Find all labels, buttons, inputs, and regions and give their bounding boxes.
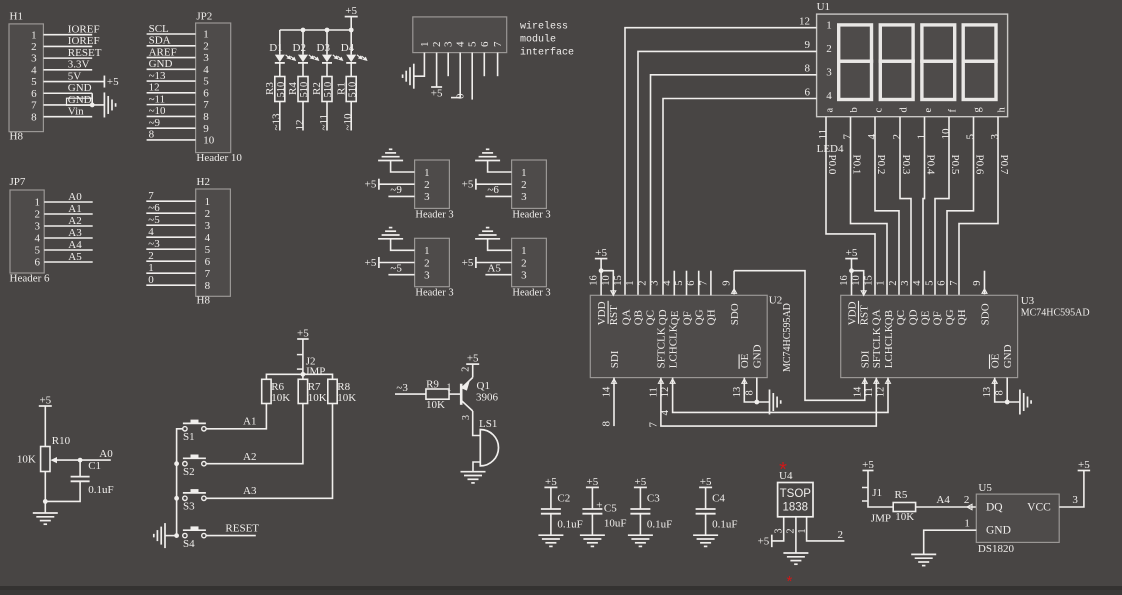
wire U1 segment g (pin 5, net P0.6) to U3 QG bbox=[947, 117, 985, 296]
svg-text:QD: QD bbox=[907, 309, 919, 325]
svg-text:R2: R2 bbox=[311, 82, 323, 95]
svg-text:3: 3 bbox=[205, 220, 211, 232]
wire H1 GND pin6 to pin7 junction bbox=[90, 93, 95, 107]
svg-text:12: 12 bbox=[876, 387, 887, 398]
connector JP2 (Header 10) bbox=[196, 11, 243, 165]
capacitor C4 0.1uF bbox=[696, 493, 738, 536]
svg-text:QG: QG bbox=[944, 309, 956, 325]
resistor R6 10K bbox=[262, 379, 291, 404]
wire U5 GND (pin 1) to ground bbox=[924, 517, 977, 554]
svg-text:9: 9 bbox=[722, 280, 733, 285]
svg-text:~9: ~9 bbox=[149, 117, 161, 129]
wire U1 segment d (pin 2, net P0.3) to U3 QD bbox=[891, 117, 912, 296]
svg-text:GND: GND bbox=[68, 82, 92, 94]
wire H1 pin 2 net IOREF bbox=[43, 35, 99, 47]
wire net 8 to U2 SDI bbox=[601, 378, 615, 427]
svg-text:2: 2 bbox=[786, 529, 797, 534]
svg-text:+5: +5 bbox=[862, 459, 874, 471]
svg-text:2: 2 bbox=[205, 208, 211, 220]
svg-text:6: 6 bbox=[203, 87, 209, 99]
svg-text:QH: QH bbox=[956, 309, 968, 325]
svg-text:~13: ~13 bbox=[271, 113, 283, 130]
svg-text:GND: GND bbox=[1002, 344, 1014, 368]
svg-text:1: 1 bbox=[205, 196, 211, 208]
svg-text:+5: +5 bbox=[462, 257, 474, 269]
wire/net ~10 from R1 bbox=[342, 102, 354, 131]
svg-text:1: 1 bbox=[625, 280, 636, 285]
display U1 LED4 4-digit 7-segment bbox=[817, 1, 1008, 155]
svg-text:VDD: VDD bbox=[596, 301, 608, 325]
svg-text:1: 1 bbox=[964, 517, 970, 529]
wire JP2 pin 1 net SCL bbox=[147, 23, 196, 35]
pin 2 U3 QC bbox=[888, 280, 899, 285]
LED D3 bbox=[317, 30, 344, 63]
svg-text:A4: A4 bbox=[936, 494, 950, 506]
wire U2 SDO to U3 SDI bbox=[734, 271, 865, 401]
wire Header3#2 pin2 to +5 bbox=[476, 183, 512, 185]
svg-text:7: 7 bbox=[31, 100, 37, 112]
svg-text:2: 2 bbox=[891, 134, 903, 140]
svg-text:+5: +5 bbox=[545, 476, 557, 488]
svg-text:14: 14 bbox=[602, 386, 613, 397]
svg-text:+5: +5 bbox=[107, 76, 119, 88]
power +5 LED bank bbox=[345, 5, 358, 30]
svg-text:8: 8 bbox=[31, 111, 37, 123]
wire net RESET from S4 bbox=[206, 522, 259, 535]
wire LS1 to ground bbox=[473, 462, 480, 472]
svg-text:S1: S1 bbox=[183, 431, 195, 443]
svg-text:3: 3 bbox=[203, 52, 209, 64]
wire JP7 pin 6 net A5 bbox=[44, 251, 92, 263]
pin 14 U2 SDI bbox=[602, 379, 617, 398]
wire H2 pin 1 net 7 bbox=[146, 190, 195, 202]
svg-text:QA: QA bbox=[620, 309, 632, 325]
svg-text:LCHCLK: LCHCLK bbox=[883, 324, 895, 368]
pin 4 U2 QE bbox=[662, 271, 675, 296]
pin 1 U2 QB bbox=[625, 280, 636, 285]
pin 4 U3 QE bbox=[912, 280, 923, 286]
svg-text:1: 1 bbox=[419, 42, 431, 48]
svg-text:5: 5 bbox=[965, 134, 977, 140]
svg-text:DQ: DQ bbox=[986, 502, 1003, 514]
wire H1 pin 3 net RESET bbox=[43, 47, 101, 59]
wire net A2: S2 to R7 bbox=[206, 404, 303, 464]
svg-text:0.1uF: 0.1uF bbox=[712, 519, 737, 531]
wire net A1: S1 to R6 bbox=[206, 404, 266, 429]
svg-text:1: 1 bbox=[521, 167, 527, 179]
svg-text:A1: A1 bbox=[68, 203, 81, 215]
svg-text:RST: RST bbox=[608, 305, 620, 325]
svg-text:510: 510 bbox=[347, 82, 358, 98]
svg-text:1: 1 bbox=[916, 134, 928, 140]
wireless module interface connector bbox=[413, 17, 507, 53]
jumper J1 JMP bbox=[862, 487, 893, 524]
ground at LS1 bbox=[461, 472, 486, 483]
wire Header3#1 pin2 to +5 bbox=[379, 183, 415, 185]
svg-text:6: 6 bbox=[31, 88, 37, 100]
svg-text:c: c bbox=[873, 108, 884, 113]
svg-text:P0.7: P0.7 bbox=[998, 155, 1010, 175]
svg-text:3906: 3906 bbox=[476, 392, 499, 404]
svg-text:C1: C1 bbox=[88, 460, 101, 472]
pin 12 U2 LCHCLK bbox=[660, 379, 675, 398]
wire Header3#2 pin1 to ground bbox=[488, 161, 512, 173]
capacitor C5 10uF bbox=[582, 500, 626, 536]
svg-text:SDO: SDO bbox=[979, 303, 991, 325]
ground at U5 GND bbox=[911, 554, 936, 565]
pushbutton S2 bbox=[183, 455, 206, 479]
power +5 at U3 VDD/RST bbox=[839, 247, 866, 295]
marker red asterisk above U4 bbox=[779, 459, 787, 481]
capacitor C1 0.1uF bbox=[45, 460, 113, 501]
pin 15 U3 QA bbox=[863, 275, 874, 286]
wire +5 rail to R6 R7 R8 bbox=[266, 372, 332, 379]
wire JP7 pin 2 net A1 bbox=[44, 203, 92, 215]
svg-text:wireless: wireless bbox=[520, 21, 568, 33]
wire/net ~11 from R2 bbox=[318, 102, 330, 131]
connector JP7 (Header 6) bbox=[10, 176, 51, 285]
svg-text:6: 6 bbox=[205, 256, 211, 268]
resistor R5 10K bbox=[893, 489, 915, 523]
power +5 at J1 bbox=[862, 459, 874, 488]
svg-text:SCL: SCL bbox=[149, 23, 169, 35]
svg-text:+5: +5 bbox=[595, 247, 607, 259]
marker red asterisk below U4 bbox=[786, 573, 792, 590]
svg-text:10K: 10K bbox=[426, 399, 445, 411]
capacitor C3 0.1uF bbox=[630, 493, 672, 536]
svg-text:~6: ~6 bbox=[487, 184, 499, 196]
svg-text:S2: S2 bbox=[183, 466, 195, 478]
svg-text:510: 510 bbox=[299, 82, 310, 98]
ground at U3 pin 8 bbox=[1020, 390, 1031, 415]
svg-text:7: 7 bbox=[647, 422, 659, 428]
svg-text:SDO: SDO bbox=[729, 303, 741, 325]
svg-text:5: 5 bbox=[674, 280, 685, 285]
power +5 at C5 bbox=[586, 476, 599, 509]
svg-text:3: 3 bbox=[900, 280, 911, 285]
svg-text:Header 3: Header 3 bbox=[415, 288, 453, 299]
svg-text:b: b bbox=[849, 107, 860, 112]
svg-text:8: 8 bbox=[805, 63, 811, 75]
svg-text:~10: ~10 bbox=[342, 113, 354, 130]
pin 7 U3 QH bbox=[949, 280, 960, 285]
connector Header 3 #1 bbox=[415, 160, 454, 220]
svg-text:+5: +5 bbox=[587, 476, 599, 488]
svg-text:1: 1 bbox=[826, 20, 832, 32]
power +5 at Header3#4 pin2 bbox=[462, 257, 476, 269]
svg-text:D1: D1 bbox=[269, 42, 282, 54]
svg-text:9: 9 bbox=[805, 39, 811, 51]
svg-text:2: 2 bbox=[637, 280, 648, 285]
pin 3 U2 QD bbox=[650, 280, 661, 285]
wire H1 pin 8 net Vin bbox=[43, 105, 92, 117]
wire Header3#1 pin1 to ground bbox=[391, 161, 415, 173]
power +5 at J2 bbox=[297, 328, 309, 355]
svg-text:module: module bbox=[520, 34, 556, 46]
svg-text:A1: A1 bbox=[243, 416, 256, 428]
pin 11 U2 SFTCLK bbox=[648, 379, 663, 398]
svg-text:10: 10 bbox=[940, 128, 952, 140]
svg-text:Header 6: Header 6 bbox=[10, 273, 51, 285]
svg-text:f: f bbox=[947, 109, 958, 113]
wire U4 pin2 to ground bbox=[786, 517, 797, 553]
svg-text:1: 1 bbox=[31, 29, 37, 41]
wire JP2 pin 6 net 12 bbox=[147, 82, 196, 94]
svg-text:2: 2 bbox=[460, 367, 471, 372]
svg-text:+5: +5 bbox=[365, 179, 377, 191]
svg-text:4: 4 bbox=[455, 41, 467, 47]
svg-text:6: 6 bbox=[479, 41, 491, 47]
svg-text:10K: 10K bbox=[895, 511, 914, 523]
wire wireless pin2 to +5 bbox=[436, 53, 438, 87]
wire H1 pin 5 net 5V bbox=[43, 70, 104, 82]
wire JP7 pin 3 net A2 bbox=[44, 215, 92, 227]
svg-text:~11: ~11 bbox=[149, 93, 166, 105]
wire Header3#4 pin2 to +5 bbox=[476, 262, 512, 264]
svg-text:QB: QB bbox=[633, 310, 645, 325]
svg-text:SDI: SDI bbox=[860, 350, 872, 368]
svg-text:Header 3: Header 3 bbox=[512, 288, 550, 299]
svg-text:S4: S4 bbox=[183, 538, 195, 550]
svg-text:+5: +5 bbox=[431, 88, 443, 100]
svg-text:VDD: VDD bbox=[846, 301, 858, 325]
svg-text:8: 8 bbox=[149, 129, 155, 141]
svg-text:Vin: Vin bbox=[68, 105, 84, 117]
wire net ~3 to R9 bbox=[395, 382, 426, 394]
svg-text:U4: U4 bbox=[779, 470, 793, 482]
pin 1 U3 QB bbox=[876, 280, 887, 285]
wire JP2 pin 9 net ~9 bbox=[147, 117, 196, 129]
svg-text:C4: C4 bbox=[712, 493, 725, 505]
svg-text:VCC: VCC bbox=[1027, 502, 1051, 514]
svg-text:e: e bbox=[923, 108, 934, 113]
svg-text:7: 7 bbox=[949, 280, 960, 285]
svg-text:7: 7 bbox=[205, 268, 211, 280]
svg-text:1: 1 bbox=[521, 245, 527, 257]
svg-text:2: 2 bbox=[424, 257, 430, 269]
pin 7 U2 QH bbox=[698, 271, 711, 296]
wire U1 digit pin 9 to U2 QB bbox=[638, 39, 817, 295]
ground (inverted) at Header3#1 pin1 bbox=[378, 149, 403, 160]
wireless module interface label bbox=[520, 21, 574, 59]
wire H2 pin 3 net ~5 bbox=[146, 214, 195, 226]
power +5 at Header3#2 pin2 bbox=[462, 179, 476, 191]
power +5 at Q1 emitter bbox=[466, 353, 479, 365]
wire H1 pin 1 net IOREF bbox=[43, 24, 99, 36]
resistor R9 10K bbox=[426, 379, 449, 411]
svg-text:6: 6 bbox=[686, 280, 697, 285]
svg-text:7: 7 bbox=[842, 134, 854, 140]
resistor R8 10K bbox=[328, 379, 357, 404]
svg-text:10K: 10K bbox=[337, 392, 356, 404]
wire U4 pin3 to +5 bbox=[772, 517, 785, 541]
svg-text:4: 4 bbox=[826, 90, 832, 102]
wire U1 segment f (pin 10, net P0.5) to U3 QF bbox=[935, 117, 961, 296]
wire common line S1-S4 bbox=[174, 429, 183, 538]
svg-text:0.1uF: 0.1uF bbox=[557, 519, 582, 531]
svg-text:10: 10 bbox=[601, 275, 612, 286]
svg-text:4: 4 bbox=[912, 280, 923, 286]
wire JP2 pin 2 net SDA bbox=[147, 35, 196, 47]
ground at C3 bbox=[628, 535, 653, 546]
svg-text:4: 4 bbox=[148, 226, 154, 238]
svg-text:0.1uF: 0.1uF bbox=[88, 484, 113, 496]
svg-text:H1: H1 bbox=[10, 11, 23, 23]
svg-text:7: 7 bbox=[148, 190, 154, 202]
svg-text:+5: +5 bbox=[462, 179, 474, 191]
pin 13 U2 OE bbox=[732, 379, 747, 398]
svg-text:+5: +5 bbox=[846, 247, 858, 259]
svg-text:AREF: AREF bbox=[149, 46, 177, 58]
svg-text:R10: R10 bbox=[52, 435, 71, 447]
pin 9 U2 SDO bbox=[722, 271, 737, 295]
resistor R3 510 bbox=[264, 63, 287, 102]
svg-text:3: 3 bbox=[443, 41, 455, 47]
svg-text:1: 1 bbox=[148, 262, 154, 274]
svg-text:6: 6 bbox=[937, 280, 948, 285]
wire H1 pin 4 net 3.3V bbox=[43, 59, 92, 71]
svg-text:+5: +5 bbox=[345, 5, 357, 17]
wire JP2 pin 3 net AREF bbox=[147, 46, 196, 58]
wire H2 pin 8 net 0 bbox=[146, 274, 195, 286]
wire H2 pin 4 net 4 bbox=[146, 226, 195, 238]
svg-text:3: 3 bbox=[521, 191, 527, 203]
svg-text:OE: OE bbox=[990, 353, 1002, 368]
svg-text:A0: A0 bbox=[68, 191, 82, 203]
svg-text:+5: +5 bbox=[1078, 459, 1090, 471]
svg-text:GND: GND bbox=[149, 58, 173, 70]
svg-text:+5: +5 bbox=[297, 328, 309, 340]
svg-text:1838: 1838 bbox=[783, 502, 809, 514]
svg-text:D4: D4 bbox=[341, 42, 355, 54]
wire U4 pin1 net 2 bbox=[797, 517, 845, 541]
svg-text:A4: A4 bbox=[68, 239, 82, 251]
svg-text:a: a bbox=[824, 108, 835, 113]
svg-text:P0.3: P0.3 bbox=[900, 155, 912, 175]
svg-text:LED4: LED4 bbox=[817, 143, 844, 155]
svg-text:MC74HC595AD: MC74HC595AD bbox=[782, 303, 793, 372]
ground at C2 bbox=[538, 535, 563, 546]
wire JP2 pin 8 net ~10 bbox=[147, 105, 196, 117]
svg-text:g: g bbox=[972, 107, 983, 113]
svg-text:6: 6 bbox=[805, 86, 811, 98]
svg-text:1: 1 bbox=[35, 197, 41, 209]
wire net 4: U2 LCHCLK to U3 LCHCLK bbox=[659, 378, 888, 416]
svg-text:2: 2 bbox=[964, 494, 970, 506]
svg-text:h: h bbox=[996, 107, 1007, 113]
svg-text:+5: +5 bbox=[700, 476, 712, 488]
svg-text:2: 2 bbox=[424, 179, 430, 191]
svg-text:3: 3 bbox=[424, 191, 430, 203]
svg-text:4: 4 bbox=[659, 410, 671, 416]
svg-text:A3: A3 bbox=[68, 227, 82, 239]
svg-text:8: 8 bbox=[205, 280, 211, 292]
svg-text:A3: A3 bbox=[243, 485, 257, 497]
svg-text:H2: H2 bbox=[197, 176, 210, 188]
svg-text:8: 8 bbox=[203, 111, 209, 123]
svg-text:2: 2 bbox=[888, 280, 899, 285]
ground (inverted) at Header3#3 pin1 bbox=[378, 228, 403, 239]
ground at C5 bbox=[580, 535, 605, 546]
svg-text:3: 3 bbox=[650, 280, 661, 285]
transistor Q1 3906 (PNP) bbox=[460, 364, 498, 420]
svg-text:13: 13 bbox=[732, 387, 743, 398]
pushbutton S1 bbox=[183, 420, 206, 444]
pin 11 U3 SFTCLK bbox=[864, 379, 879, 398]
svg-text:~11: ~11 bbox=[318, 114, 330, 131]
svg-text:~6: ~6 bbox=[148, 202, 160, 214]
pin 6 U3 QG bbox=[937, 280, 948, 285]
power +5 at R10 bbox=[39, 395, 52, 448]
resistor R7 10K bbox=[298, 379, 327, 404]
svg-text:14: 14 bbox=[852, 386, 863, 397]
wire JP7 pin 5 net A4 bbox=[44, 239, 92, 251]
svg-text:QB: QB bbox=[883, 310, 895, 325]
svg-text:JMP: JMP bbox=[871, 512, 891, 524]
svg-text:+: + bbox=[596, 500, 602, 512]
svg-text:JMP: JMP bbox=[305, 366, 325, 378]
svg-text:~10: ~10 bbox=[149, 105, 166, 117]
wire Header3#3 pin1 to ground bbox=[391, 239, 415, 251]
ground at S4 bbox=[154, 523, 177, 548]
IC U3 MC74HC595AD bbox=[841, 295, 1090, 378]
svg-text:+5: +5 bbox=[758, 535, 770, 547]
svg-text:3: 3 bbox=[826, 67, 832, 79]
svg-text:4: 4 bbox=[203, 64, 209, 76]
power +5 at C2 bbox=[544, 476, 557, 509]
wire U3 OE+GND to ground bbox=[995, 378, 1020, 405]
svg-text:GND: GND bbox=[68, 94, 92, 106]
svg-text:~9: ~9 bbox=[390, 184, 402, 196]
net label frame GND (H1 pin 7) bbox=[67, 98, 93, 105]
wire Header3#2 pin3 net ~6 bbox=[485, 184, 511, 196]
svg-text:QF: QF bbox=[681, 311, 693, 325]
svg-text:R9: R9 bbox=[426, 379, 439, 391]
pin 2 U2 QC bbox=[637, 280, 648, 285]
svg-text:0: 0 bbox=[455, 93, 467, 99]
svg-text:P0.5: P0.5 bbox=[949, 155, 961, 175]
svg-text:U3: U3 bbox=[1021, 295, 1035, 307]
svg-text:S3: S3 bbox=[183, 501, 195, 513]
wire U2 OE+GND to ground bbox=[744, 378, 769, 405]
svg-text:5V: 5V bbox=[68, 70, 82, 82]
svg-text:5: 5 bbox=[31, 76, 37, 88]
svg-text:2: 2 bbox=[431, 42, 443, 48]
power +5 at C3 bbox=[634, 476, 647, 509]
svg-text:R1: R1 bbox=[335, 82, 347, 95]
wire U1 segment h (pin 3, net P0.7) to U3 QH bbox=[959, 117, 1010, 296]
capacitor C2 0.1uF bbox=[541, 493, 583, 536]
svg-text:7: 7 bbox=[203, 99, 209, 111]
svg-text:5: 5 bbox=[205, 244, 211, 256]
wire Header3#4 pin1 to ground bbox=[488, 239, 512, 251]
svg-text:0.1uF: 0.1uF bbox=[647, 519, 672, 531]
svg-text:2: 2 bbox=[826, 43, 832, 55]
svg-text:10uF: 10uF bbox=[604, 518, 627, 530]
svg-text:C3: C3 bbox=[647, 493, 660, 505]
svg-text:6: 6 bbox=[35, 257, 41, 269]
svg-text:10K: 10K bbox=[271, 392, 290, 404]
svg-text:+5: +5 bbox=[39, 395, 51, 407]
pin 3 U3 QD bbox=[900, 280, 911, 285]
svg-text:2: 2 bbox=[31, 41, 37, 53]
wire stub wireless pin3 bbox=[447, 53, 449, 77]
power +5 at C4 bbox=[699, 476, 712, 509]
svg-text:Header 10: Header 10 bbox=[196, 152, 242, 164]
svg-text:QC: QC bbox=[895, 310, 907, 325]
svg-text:LS1: LS1 bbox=[479, 418, 497, 430]
svg-text:SFTCLK: SFTCLK bbox=[871, 327, 883, 368]
